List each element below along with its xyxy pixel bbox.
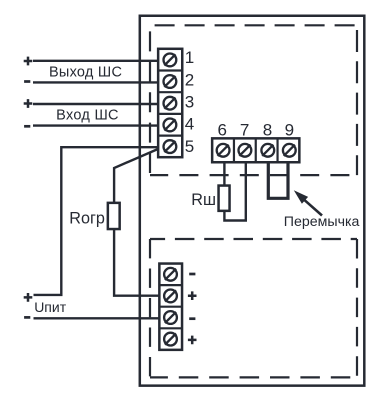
upper dashed module block top edge — [150, 24, 357, 26]
minus sign power 3 — [189, 317, 195, 320]
screw terminal power 2 — [164, 290, 177, 303]
screw terminal 2 — [164, 75, 177, 88]
plus sign terminal 1 — [24, 57, 33, 66]
wire terminal 6 to resistor Rш — [223, 164, 225, 186]
screw terminal power 4 — [164, 333, 177, 346]
upper dashed module block right edge — [356, 25, 358, 175]
svg-text:Uпит: Uпит — [34, 299, 67, 315]
minus wire Uпит to lower block terminal 3 — [34, 317, 160, 319]
svg-text:9: 9 — [285, 121, 294, 140]
wire from terminal 5 to +Uпит — [34, 147, 158, 295]
jumper between terminals 8 and 9 — [268, 164, 288, 199]
svg-text:Вход ШС: Вход ШС — [56, 108, 119, 124]
lower dashed module block top edge — [150, 238, 357, 240]
wire Rш to terminal 7 — [224, 164, 245, 221]
plus sign power 4 — [188, 336, 197, 345]
lower dashed module block right edge — [356, 239, 358, 377]
upper dashed module block bottom edge — [150, 174, 357, 176]
svg-text:8: 8 — [263, 121, 272, 140]
terminal block X1 (terminals 1-5) — [158, 49, 182, 157]
svg-text:1: 1 — [185, 48, 194, 67]
svg-text:5: 5 — [185, 137, 194, 156]
wire terminal 1 (+) — [33, 60, 158, 62]
screw terminal 6 — [217, 144, 230, 157]
screw terminal 4 — [164, 119, 177, 132]
screw terminal 7 — [239, 144, 252, 157]
svg-text:Перемычка: Перемычка — [284, 214, 360, 230]
screw terminal 5 — [164, 140, 177, 153]
screw terminal 8 — [261, 144, 274, 157]
screw terminal power 1 — [164, 268, 177, 281]
terminal block X3 (power, - + - +) — [159, 264, 182, 350]
terminal block X2 (terminals 6-9) — [212, 138, 299, 162]
svg-text:7: 7 — [240, 121, 249, 140]
svg-text:3: 3 — [185, 93, 194, 112]
upper dashed module block left edge — [149, 25, 151, 175]
svg-text:6: 6 — [217, 121, 226, 140]
wire terminal 4 (-) — [33, 124, 158, 126]
svg-text:4: 4 — [185, 115, 194, 134]
wire terminal 2 (-) — [33, 81, 158, 83]
wire terminal 3 (+) — [33, 103, 158, 105]
screw terminal 1 — [164, 54, 177, 67]
minus sign power 1 — [189, 273, 195, 276]
screw terminal 3 — [164, 97, 177, 110]
minus sign terminal 4 — [24, 125, 30, 128]
wire Rогр to lower block terminal + — [114, 229, 159, 296]
minus sign terminal 2 — [24, 80, 30, 83]
outer device enclosure box — [140, 16, 364, 386]
resistor Rш — [219, 186, 230, 211]
resistor Rогр — [108, 203, 120, 229]
plus sign terminal 3 — [24, 99, 33, 108]
minus sign Uпит — [24, 316, 30, 319]
svg-text:Rогр: Rогр — [69, 210, 105, 228]
arrow to jumper — [304, 199, 323, 215]
svg-text:Rш: Rш — [191, 191, 216, 209]
plus sign power 2 — [188, 291, 197, 300]
svg-text:2: 2 — [185, 70, 194, 89]
plus sign Uпит — [24, 293, 33, 302]
lower dashed module block left edge — [149, 239, 151, 377]
svg-text:Выход ШС: Выход ШС — [49, 64, 122, 80]
screw terminal 9 — [283, 144, 296, 157]
wire terminal 5 to resistor Rогр (diagonal) — [114, 149, 158, 203]
screw terminal power 3 — [164, 311, 177, 324]
lower dashed module block bottom edge — [150, 376, 357, 378]
